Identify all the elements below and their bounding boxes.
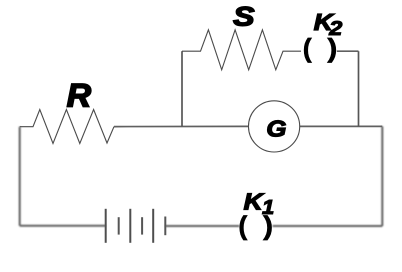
svg-text:1: 1	[262, 197, 274, 219]
wire bottom left	[20, 225, 106, 227]
wire key K2 to right corner	[337, 50, 359, 52]
battery B plate 4 short	[141, 217, 143, 234]
battery B plate 6 short	[164, 217, 166, 236]
wire middle left of G	[114, 125, 248, 127]
svg-text:2: 2	[328, 16, 342, 39]
resistor S	[182, 30, 301, 70]
svg-text:(: (	[303, 33, 312, 63]
battery B plate 1 long	[105, 209, 107, 243]
svg-text:S: S	[233, 2, 255, 32]
battery B plate 2 short	[118, 217, 120, 234]
wire key K1 to bottom right corner	[273, 225, 383, 227]
wire middle right of G	[300, 125, 383, 127]
battery B plate 5 long	[152, 209, 154, 243]
svg-text:G: G	[266, 117, 286, 142]
battery B plate 3 long	[129, 209, 131, 243]
wire left vertical	[19, 127, 21, 226]
wire battery to key K1	[165, 225, 239, 227]
svg-text:R: R	[67, 77, 92, 113]
wire right vertical upper	[358, 51, 360, 126]
wire top branch left vertical	[181, 51, 183, 126]
wire right vertical lower	[381, 126, 383, 226]
galvanometer G	[249, 101, 300, 152]
resistor R	[20, 110, 114, 144]
